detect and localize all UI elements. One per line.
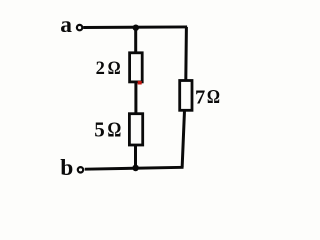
resistor 2 ohm box bbox=[130, 53, 143, 82]
svg-text:Ω: Ω bbox=[207, 86, 220, 109]
wire between 2 ohm and 5 ohm bbox=[134, 83, 137, 115]
svg-text:a: a bbox=[60, 12, 72, 38]
svg-text:2: 2 bbox=[96, 59, 105, 79]
svg-text:7: 7 bbox=[195, 86, 205, 108]
node top junction bbox=[133, 25, 139, 31]
node bottom junction bbox=[132, 165, 139, 172]
wire 5 ohm down to bottom junction bbox=[134, 144, 137, 168]
svg-text:Ω: Ω bbox=[107, 119, 121, 142]
svg-text:5: 5 bbox=[94, 118, 105, 142]
wire right branch top corner down to R 7ohm bbox=[186, 27, 187, 80]
terminal b bbox=[78, 167, 83, 172]
wire bottom from b to right corner bbox=[85, 167, 184, 169]
terminal a bbox=[77, 25, 82, 30]
resistor 5 ohm box bbox=[129, 114, 142, 145]
wire R 7ohm down to bottom corner bbox=[182, 111, 184, 168]
svg-text:b: b bbox=[60, 155, 73, 181]
resistor 7 ohm box bbox=[180, 81, 192, 111]
svg-text:Ω: Ω bbox=[108, 57, 121, 78]
wire junction down to R 2ohm bbox=[134, 27, 137, 53]
red mark on resistor 2 ohm bottom edge bbox=[138, 81, 142, 85]
wire top from a to right corner bbox=[83, 25, 187, 29]
